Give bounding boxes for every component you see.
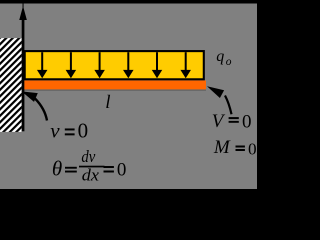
- svg-text:q: q: [216, 48, 224, 65]
- svg-text:dx: dx: [82, 166, 100, 185]
- svg-text:l: l: [105, 92, 110, 113]
- svg-text:dv: dv: [81, 147, 95, 166]
- svg-text:o: o: [226, 56, 232, 68]
- svg-text:0: 0: [117, 160, 127, 181]
- svg-text:θ: θ: [52, 157, 62, 181]
